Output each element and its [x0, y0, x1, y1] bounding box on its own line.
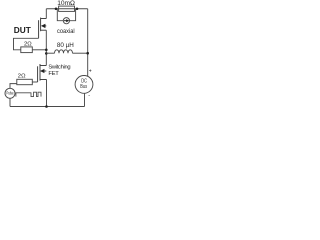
waveform double pulse annotation	[16, 92, 41, 96]
body lead	[41, 70, 46, 72]
source lead	[40, 79, 47, 81]
wire phase node vertical	[45, 30, 47, 65]
svg-text:2Ω: 2Ω	[18, 74, 26, 80]
channel bar	[40, 18, 42, 32]
arrow in probe	[64, 20, 67, 22]
transistor Q1 DUT	[39, 18, 47, 39]
wire bottom bus	[10, 106, 85, 108]
body lead	[42, 25, 46, 27]
wire DUT gate loop	[14, 38, 47, 50]
wire coaxial loop	[57, 9, 75, 21]
transistor Q2 switching FET	[38, 64, 47, 82]
wire right rail	[87, 9, 89, 77]
wire DUT drain	[45, 9, 47, 19]
arrow of switching FET body	[40, 69, 44, 73]
wire resistor to gate	[32, 81, 37, 83]
svg-text:coaxial: coaxial	[57, 28, 75, 35]
node junction dot inductor-rail	[86, 52, 89, 55]
wire switching FET source to bottom bus	[46, 80, 48, 107]
svg-text:-: -	[88, 93, 90, 99]
resistor R2 2ohm gate drive	[17, 79, 33, 84]
source V1 pulse generator	[5, 88, 15, 98]
wire pulse bottom	[9, 98, 11, 106]
drain lead	[40, 65, 46, 67]
node junction dot shunt right	[76, 7, 79, 10]
svg-text:FET: FET	[48, 71, 59, 77]
channel bar	[39, 64, 41, 81]
arrow of DUT body	[41, 24, 46, 28]
svg-text:2Ω: 2Ω	[24, 42, 32, 48]
svg-text:Bus: Bus	[80, 84, 87, 90]
drain lead	[41, 18, 47, 20]
wire DC bus top lead	[84, 93, 86, 106]
resistor R3 10mohm shunt	[59, 6, 75, 11]
wire pulse to resistor	[10, 84, 17, 89]
node junction dot shunt left	[55, 7, 58, 10]
node junction dot phase-inductor	[45, 52, 48, 55]
node junction dot source-bottom bus	[45, 105, 48, 108]
svg-text:Switching: Switching	[48, 64, 70, 70]
wire top rail	[46, 8, 87, 10]
inductor L1 80uH	[46, 50, 87, 53]
source lead	[41, 29, 47, 31]
node junction dot phase-resistor	[45, 49, 48, 52]
current probe circle coaxial	[63, 18, 69, 24]
gate bar	[38, 20, 40, 38]
svg-text:Pulse: Pulse	[6, 91, 14, 96]
source V2 DC bus	[75, 76, 93, 94]
svg-text:80 µH: 80 µH	[57, 42, 74, 49]
gate bar	[37, 66, 39, 82]
resistor R1 2ohm DUT gate	[21, 47, 33, 53]
svg-text:DUT: DUT	[14, 25, 31, 35]
svg-text:+: +	[89, 69, 92, 75]
svg-text:10mΩ: 10mΩ	[57, 0, 75, 7]
